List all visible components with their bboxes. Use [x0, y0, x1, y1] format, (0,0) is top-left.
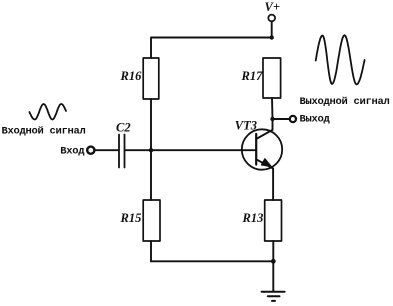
wire to ground	[272, 261, 274, 291]
wire bottom rail	[151, 260, 273, 262]
wire R13 to bottom rail	[272, 241, 274, 261]
svg-text:R17: R17	[241, 69, 264, 83]
wire top rail	[151, 38, 272, 59]
capacitor C2	[119, 135, 125, 168]
svg-text:Выход: Выход	[300, 114, 331, 126]
svg-text:Вход: Вход	[60, 146, 85, 158]
wire V+ to top rail	[271, 21, 273, 37]
resistor R17	[263, 58, 281, 98]
wire R15 top	[150, 150, 152, 200]
terminal Выход	[290, 116, 296, 122]
svg-text:Выходной сигнал: Выходной сигнал	[300, 96, 390, 108]
resistor R13	[265, 200, 282, 241]
svg-text:R15: R15	[120, 211, 142, 225]
wire R17 bottom	[271, 98, 274, 119]
wire emitter	[272, 169, 274, 200]
wire R16 to base node	[150, 99, 152, 150]
power terminal V+	[268, 15, 275, 22]
svg-text:R13: R13	[242, 211, 264, 225]
junction V+ / top rail	[270, 35, 274, 39]
wire base	[151, 149, 256, 151]
output signal sine	[316, 35, 365, 84]
svg-text:V+: V+	[265, 0, 280, 14]
transistor VT3	[242, 129, 282, 169]
wire C2 to junction	[126, 149, 151, 151]
svg-text:Входной сигнал: Входной сигнал	[2, 126, 86, 138]
input signal sine	[29, 104, 66, 120]
ground	[262, 292, 285, 301]
resistor R15	[143, 200, 160, 241]
junction collector / output	[270, 117, 274, 121]
svg-text:VT3: VT3	[235, 118, 257, 132]
wire output	[273, 118, 290, 120]
junction bottom rail / ground	[271, 259, 276, 264]
svg-text:R16: R16	[120, 69, 143, 83]
wire R15 to bottom rail	[150, 241, 152, 261]
junction base node	[149, 148, 153, 152]
svg-text:C2: C2	[116, 120, 131, 134]
terminal Вход	[87, 147, 94, 154]
wire Вход to C2	[95, 149, 118, 151]
wire collector	[272, 119, 274, 130]
resistor R16	[143, 58, 159, 99]
